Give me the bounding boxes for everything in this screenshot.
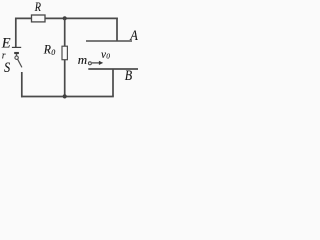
wire right riser B: [112, 69, 114, 97]
svg-text:R: R: [43, 41, 51, 56]
plate A: [86, 40, 132, 42]
wire left upper: [15, 18, 17, 47]
svg-text:S: S: [4, 60, 11, 76]
wire battery-to-switch stub: [16, 54, 18, 56]
svg-text:0: 0: [106, 52, 110, 61]
object m circle: [88, 62, 91, 65]
svg-text:0: 0: [51, 48, 55, 57]
svg-text:R: R: [34, 0, 41, 14]
svg-text:m: m: [78, 53, 87, 67]
wire top-right riser: [116, 18, 118, 41]
wire middle branch upper: [64, 18, 66, 46]
plate B: [88, 68, 138, 70]
wire middle branch lower: [64, 60, 66, 97]
svg-text:B: B: [125, 68, 132, 84]
wire bottom: [21, 96, 114, 98]
wire left lower: [21, 72, 23, 97]
node junction bottom: [63, 94, 67, 98]
battery short plate: [14, 52, 19, 54]
resistor R: [32, 15, 46, 22]
svg-text:A: A: [129, 28, 138, 44]
battery long plate: [12, 46, 21, 48]
wire top-right segment: [45, 17, 118, 19]
switch S terminal circle: [15, 56, 18, 59]
velocity v0 arrow: [92, 61, 103, 65]
switch S blade: [18, 59, 22, 67]
wire top-left segment: [15, 17, 32, 19]
node junction top: [63, 16, 67, 20]
resistor R0: [62, 46, 67, 60]
